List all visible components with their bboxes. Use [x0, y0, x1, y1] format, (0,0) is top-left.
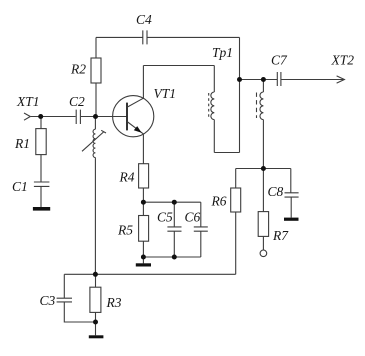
- svg-text:R4: R4: [119, 170, 135, 185]
- wire primary bottom: [214, 152, 239, 154]
- transformer Tp1 core (primary side dashes): [208, 93, 210, 118]
- svg-text:R3: R3: [106, 295, 122, 310]
- svg-text:R7: R7: [272, 228, 289, 243]
- wire R6 bottom lead: [235, 212, 237, 274]
- inductor L1 (variable): [93, 117, 95, 275]
- wire R2 bottom lead: [95, 83, 97, 117]
- wire R6 top lead: [235, 169, 237, 189]
- wire C2 to base: [81, 116, 127, 118]
- svg-text:C2: C2: [69, 94, 85, 109]
- svg-text:R2: R2: [70, 62, 86, 77]
- capacitor C7: [277, 72, 281, 86]
- node R4 R5 junction: [141, 200, 146, 205]
- svg-text:XT1: XT1: [16, 94, 40, 109]
- node base junction: [93, 114, 98, 119]
- resistor R6: [231, 188, 241, 212]
- wire emitter down: [142, 134, 144, 164]
- node C5 bottom junction: [172, 255, 177, 260]
- wire C8 to ground: [290, 197, 292, 217]
- wire R3 bottom lead: [95, 312, 97, 335]
- wire R7 top lead: [262, 169, 264, 212]
- resistor R3: [90, 287, 101, 312]
- resistor R5: [139, 216, 149, 242]
- wire collector to transformer: [143, 65, 214, 67]
- transistor VT1 emitter arrow: [134, 126, 142, 133]
- svg-text:R1: R1: [14, 136, 30, 151]
- wire XT2 line: [240, 79, 345, 81]
- svg-text:XT2: XT2: [331, 53, 355, 68]
- node bus junction: [93, 272, 98, 277]
- wire C4 line left: [96, 36, 143, 38]
- resistor R2: [91, 58, 101, 83]
- ground under R5: [136, 263, 151, 266]
- svg-text:VT1: VT1: [154, 86, 177, 101]
- wire secondary node line: [236, 168, 291, 170]
- terminal XT1: [24, 113, 30, 120]
- resistor R7: [258, 212, 268, 237]
- wire C3 branch down: [63, 274, 65, 298]
- svg-text:C5: C5: [157, 210, 173, 225]
- terminal XT2 arrow: [337, 76, 345, 83]
- wire R3 top lead: [95, 274, 97, 287]
- svg-text:C1: C1: [12, 179, 28, 194]
- capacitor C8: [285, 193, 299, 197]
- transistor VT1 circle: [113, 96, 154, 137]
- wire C5 C6 top line: [143, 201, 200, 203]
- node C5 top junction: [172, 200, 177, 205]
- wire input line left: [30, 116, 75, 118]
- resistor R1: [36, 129, 46, 155]
- wire R1 top lead: [40, 117, 42, 129]
- wire collector up: [142, 66, 144, 99]
- svg-text:C4: C4: [136, 12, 152, 27]
- node R5 ground junction: [141, 255, 146, 260]
- capacitor C3: [57, 298, 72, 302]
- wire C8 drop: [290, 169, 292, 193]
- wire R4 to R5: [142, 188, 144, 216]
- terminal circle under R7: [260, 250, 267, 257]
- node secondary bottom junction: [261, 166, 266, 171]
- wire R5 to ground: [142, 241, 144, 263]
- wire C1 to ground: [40, 187, 42, 207]
- wire C4 line right: [147, 36, 239, 38]
- svg-text:C8: C8: [268, 184, 284, 199]
- ground under C1: [33, 207, 50, 211]
- wire C4 drop to node: [239, 37, 241, 152]
- wire C6 top lead: [200, 202, 202, 227]
- wire C5 bottom lead: [173, 231, 175, 257]
- node C4 top junction: [237, 77, 242, 82]
- ground under R3: [89, 335, 104, 338]
- transformer Tp1 core (secondary side dashes): [256, 93, 258, 119]
- wire bottom bus: [64, 273, 235, 275]
- capacitor C6: [194, 227, 208, 231]
- wire C6 bottom lead: [200, 231, 202, 257]
- node input junction: [38, 114, 43, 119]
- wire C5 top lead: [173, 202, 175, 227]
- transformer Tp1 secondary winding: [260, 80, 263, 169]
- node secondary top junction: [261, 77, 266, 82]
- svg-text:R5: R5: [117, 223, 133, 238]
- ground under C8: [284, 218, 299, 221]
- wire R2 top lead: [95, 37, 97, 58]
- transformer Tp1 primary winding: [211, 66, 214, 153]
- transistor VT1 collector line: [127, 98, 143, 107]
- transistor VT1 base bar: [126, 103, 128, 131]
- node R3 bottom junction: [93, 320, 98, 325]
- wire R7 bottom lead: [262, 236, 264, 250]
- svg-text:C7: C7: [271, 53, 288, 68]
- svg-text:C3: C3: [40, 293, 56, 308]
- resistor R4: [139, 164, 149, 188]
- inductor L1 adjustment arrow: [82, 130, 106, 151]
- svg-text:Tp1: Tp1: [212, 45, 233, 60]
- wire R1 to C1: [40, 155, 42, 182]
- capacitor C1: [34, 182, 50, 186]
- svg-text:R6: R6: [211, 194, 227, 209]
- capacitor C5: [167, 227, 181, 231]
- transistor VT1 emitter line: [127, 122, 143, 134]
- wire C5 C6 bottom line: [143, 256, 200, 258]
- svg-text:C6: C6: [185, 210, 201, 225]
- wire C3 bottom to R3 bottom: [64, 302, 95, 322]
- capacitor C2: [76, 110, 80, 124]
- capacitor C4: [143, 30, 147, 44]
